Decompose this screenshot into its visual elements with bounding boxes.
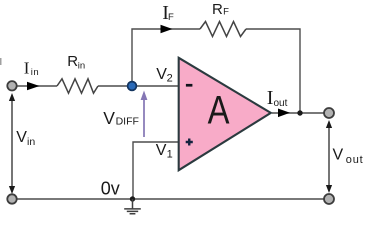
terminal bottom-right — [324, 194, 334, 204]
wire input from left terminal to op-amp inverting input — [12, 85, 178, 87]
op-amp plus sign — [186, 139, 193, 146]
svg-text:1: 1 — [167, 149, 173, 161]
svg-text:V: V — [156, 66, 167, 83]
svg-text:in: in — [27, 136, 35, 148]
svg-text:out: out — [274, 98, 288, 109]
op-amp minus sign — [186, 84, 193, 87]
svg-text:I: I — [267, 87, 274, 109]
node V2 blue junction — [128, 82, 137, 91]
svg-text:DIFF: DIFF — [116, 116, 139, 128]
resistor Rin — [57, 79, 98, 93]
svg-text:V: V — [333, 147, 344, 164]
ground symbol — [124, 199, 141, 214]
svg-text:V: V — [16, 129, 27, 146]
node junction at 0v rail — [130, 196, 135, 201]
svg-text:in: in — [31, 67, 39, 78]
stray edge mark — [0, 58, 2, 65]
wire feedback riser and top feedback run — [132, 29, 300, 113]
arrow current Iout — [278, 109, 290, 118]
svg-text:R: R — [212, 1, 223, 18]
arrow Vout measurement double-headed — [328, 126, 330, 187]
terminal input left — [7, 81, 16, 90]
svg-text:A: A — [208, 87, 230, 132]
svg-text:I: I — [24, 58, 30, 77]
op-amp U1 triangle — [179, 58, 271, 170]
wire 0v bottom rail — [12, 198, 329, 200]
arrow Vdiff purple — [143, 99, 145, 137]
svg-text:2: 2 — [167, 72, 173, 84]
wire output — [272, 112, 329, 114]
svg-text:R: R — [67, 53, 78, 70]
arrow Vin measurement double-headed — [11, 99, 13, 188]
arrow current Iin — [27, 82, 40, 91]
node junction at output — [297, 110, 302, 115]
wire non-inverting input and drop to 0v rail — [133, 142, 178, 199]
svg-text:F: F — [223, 7, 229, 18]
svg-text:0v: 0v — [101, 178, 120, 198]
terminal output right — [324, 108, 334, 118]
svg-text:out: out — [346, 154, 364, 166]
resistor RF — [200, 22, 246, 37]
arrow current IF — [161, 25, 173, 34]
svg-text:F: F — [168, 12, 174, 23]
terminal bottom-left — [7, 194, 16, 203]
svg-text:V: V — [156, 142, 167, 159]
svg-text:in: in — [78, 60, 85, 71]
svg-text:V: V — [103, 108, 115, 128]
